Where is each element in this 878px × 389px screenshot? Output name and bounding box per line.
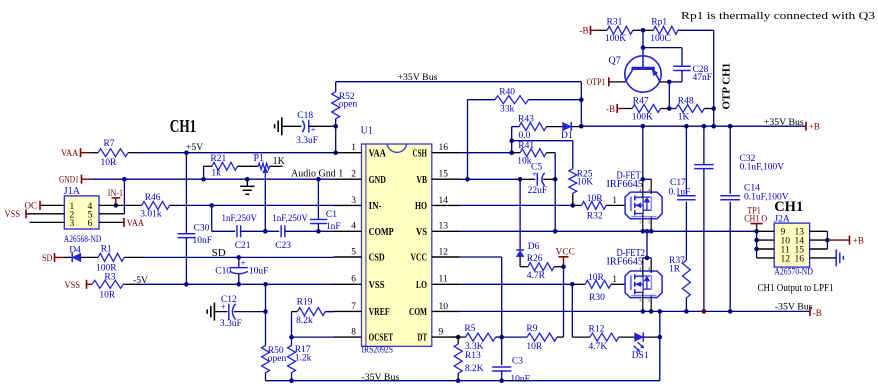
svg-text:100K: 100K [605,34,626,44]
port OC [25,201,65,212]
junction OCSET/R17 [289,335,294,340]
wire COM/-35V bus (pin10) [460,310,810,312]
svg-text:1R: 1R [669,265,681,275]
pin 2 stub (U1 GND) [334,178,362,180]
transistor Q7 (PNP) [609,56,662,93]
pin 1 J1A [70,202,75,212]
op-amp/IC U1 IRS2092S body [362,144,432,346]
svg-text:CH1: CH1 [774,199,803,215]
svg-text:D6: D6 [528,242,540,252]
power symbol VCC [556,247,576,266]
junction VS/FET mid [645,229,650,234]
pin 10 stub (U1 COM) [432,310,460,312]
junction C12/R50 [263,309,268,314]
junction bus/DS1 vertical [658,309,663,314]
wire CSH row (pin16) [460,152,512,154]
junction C5 right/VB row [553,177,558,182]
svg-text:R43: R43 [518,115,534,125]
resistor Rp1 100C [643,17,714,44]
junction bus/R13 [456,378,461,383]
pin 3 stub (U1 IN-) [334,204,362,206]
svg-text:GND: GND [369,174,386,186]
wire emitter node down to R47/R48 [668,82,670,109]
svg-text:R32: R32 [587,211,603,221]
wire VAA row to IC pin1 [136,152,336,154]
capacitor C3 10nF [492,337,530,384]
svg-text:IRS2092S: IRS2092S [362,346,394,356]
resistor R31 100K [599,17,643,44]
pin number 11 [439,275,448,285]
svg-text:10R: 10R [587,194,604,204]
svg-text:R47: R47 [633,96,649,106]
wire VS output row (pin13) [460,230,757,232]
svg-text:J2A: J2A [774,214,789,224]
pin 11 J2A [781,245,790,255]
junction C5 branch/VS row [553,229,558,234]
junction FET1 drain bracket [641,177,646,182]
pin number 16 [439,143,449,153]
svg-text:-B: -B [606,105,615,115]
resistor R47 100K [624,96,669,122]
svg-text:1k: 1k [211,169,221,179]
resistor R50 open [262,284,287,380]
junction SD/C10 [237,255,242,260]
svg-text:GND1: GND1 [59,175,79,185]
pin number 10 [439,302,449,312]
svg-text:VS: VS [416,226,427,238]
pin 1 stub (U1 VAA) [334,152,362,154]
svg-text:IN-1: IN-1 [108,188,123,198]
svg-text:COMP: COMP [369,226,394,238]
pin name CSH [413,147,428,159]
junction -5V/R50 [263,282,268,287]
svg-text:CSD: CSD [369,252,385,264]
svg-text:5: 5 [351,247,356,257]
junction bus/D1-vertical [579,124,584,129]
junction R47/R48 [667,106,672,111]
svg-text:R26: R26 [527,254,543,264]
wire J2A pin14 link [810,239,828,241]
resistor R19 8.2k [292,298,334,326]
junction gnd/J1A-5 [122,177,127,182]
svg-text:14: 14 [439,196,449,206]
junction R5/VCC-vert/R9 [499,335,504,340]
svg-text:OCSET: OCSET [369,332,394,344]
resistor R1 100R [96,245,144,274]
svg-text:R48: R48 [678,96,694,106]
label D-FET2 [617,248,646,259]
junction HO/R25/R32 [571,203,576,208]
pin 10 J2A [781,237,791,247]
svg-text:VSS: VSS [369,279,385,291]
pin name LO [416,279,427,291]
svg-text:VCC: VCC [556,247,576,257]
svg-text:-B: -B [813,309,822,319]
svg-text:4: 4 [351,222,356,232]
wire Audio Gnd row to IC pin2 [92,178,334,180]
capacitor C5 22uF [520,163,555,196]
svg-text:P1: P1 [254,153,265,164]
junction DS1/-35V vertical [658,335,663,340]
capacitor C23 1nF 250V [272,213,308,251]
wire J2A right vertical [826,231,828,249]
pin 11 stub (U1 LO) [432,283,460,285]
capacitor C14 0.1uF 100V [720,126,740,311]
pin 4 J1A [88,202,93,212]
wire P1 wiper down to COMP row [264,179,266,231]
resistor R17 1.2k [288,337,312,381]
svg-text:C12: C12 [221,295,237,305]
svg-text:open: open [268,354,287,364]
pin number 2 [351,170,356,180]
pin 12 stub (U1 VCC) [432,256,460,258]
resistor R43 0.0 [512,115,563,141]
resistor R7 10R [90,139,136,168]
wire J1A pin5 to gnd row [99,179,124,214]
junction FET2 drain bracket [645,256,650,261]
svg-text:8.2k: 8.2k [296,316,313,326]
resistor R52 [332,82,358,127]
resistor R46 3.01k [116,193,178,220]
svg-text:LO: LO [416,279,427,291]
wire R43 left vertical [511,127,513,153]
junction bus/R37 [684,309,689,314]
junction VB/D6/C5 [518,177,523,182]
svg-text:-B: -B [580,27,589,37]
capacitor C17 0.1uF [669,126,696,200]
pin name COM [409,306,427,318]
pin 12 J2A [781,254,791,264]
svg-text:R31: R31 [607,17,623,27]
wire J2A pin16 stub [810,257,837,259]
pin 9 J2A [781,228,786,238]
svg-text:C30: C30 [194,224,210,234]
resistor R26 4.7R [520,254,563,281]
pin name COMP [369,226,394,238]
port -B (R47) [606,104,624,115]
svg-text:A26568-ND: A26568-ND [64,235,102,245]
svg-text:+: + [241,259,246,268]
pin number 8 [351,328,356,338]
junction COMP/P1 wiper [263,229,268,234]
svg-text:10uF: 10uF [249,266,269,276]
junction +5V node [184,150,189,155]
junction collector/C28 top [641,45,646,50]
svg-text:VREF: VREF [369,306,390,318]
ground (signal) at C18 [275,117,282,135]
port VAA (top) [61,148,90,159]
svg-text:10: 10 [439,302,449,312]
port OTP1 [587,77,626,88]
ground (signal) at J2A pin16 [836,249,843,266]
svg-text:10R: 10R [101,158,118,168]
junction R26/VCC/R9 [561,264,566,269]
diode D1 [561,122,581,141]
junction bus/FET1 drain [641,124,646,129]
pin 8 stub (U1 OCSET) [334,336,362,338]
svg-text:D1: D1 [561,131,573,141]
junction R40/D1 vertical [579,97,584,102]
svg-text:Q7: Q7 [609,56,621,67]
pin 7 stub (U1 VREF) [334,310,362,312]
svg-text:VSS: VSS [65,281,81,291]
pin 9 stub (U1 DT) [432,336,460,338]
pin 15 J2A [795,245,805,255]
title CH1 (left channel heading) [170,116,197,136]
pin name DT [418,332,428,344]
capacitor C18 3.3uF [296,111,336,146]
wire R40 rail (x467) [467,100,469,180]
junction bus/right rail [711,124,716,129]
wire C21 branch vertical [211,205,213,231]
svg-text:CH1: CH1 [170,116,197,136]
junction bus/FET2 source a [641,309,646,314]
svg-text:U1: U1 [361,126,373,137]
pin name IN- [369,200,382,212]
label IRS2092S [362,346,394,356]
pin 16 J2A [795,254,805,264]
svg-text:VB: VB [417,174,428,186]
net label Audio Gnd 1 [291,169,343,180]
svg-text:100K: 100K [632,113,653,123]
port +B (J2A) [827,236,863,247]
pin name VSS [369,279,385,291]
svg-text:VAA: VAA [61,149,78,159]
resistor R13 8.2K [454,337,484,381]
label U1 [361,126,373,137]
svg-text:R30: R30 [589,293,605,303]
svg-text:C10: C10 [215,266,231,276]
wire LO row (pin11) [460,283,573,285]
LED DS1 [632,332,660,361]
pin 4 stub (U1 COMP) [334,230,362,232]
pin 16 stub (U1 CSH) [432,152,460,154]
junction VSS/C10 [237,282,242,287]
pin name VS [416,226,427,238]
svg-text:C17: C17 [670,178,686,188]
resistor R48 1K [669,96,713,122]
svg-text:0.1uF: 0.1uF [669,188,691,198]
svg-text:0.1uF,100V: 0.1uF,100V [740,162,785,172]
junction R31/Rp1/collector [641,28,646,33]
junction gnd/R21 [201,177,206,182]
wire COMP row left [212,230,235,232]
svg-text:C23: C23 [275,241,291,251]
capacitor C28 47nF [669,65,712,83]
label C14 [744,183,789,202]
pin name GND [369,174,386,186]
svg-text:13: 13 [439,222,449,232]
resistor R37 1R [669,202,690,312]
svg-text:R41: R41 [518,141,534,151]
label A26568-ND [64,235,102,245]
junction gnd/earth [245,177,250,182]
wire VB row (pin15) [460,178,520,180]
junction bus/C14 [728,309,733,314]
pin number 13 [439,222,449,232]
svg-text:11: 11 [439,275,448,285]
svg-text:COM: COM [409,306,427,318]
wire J2A pin10 stub [757,239,775,241]
title CH1 (right) [774,199,803,215]
svg-text:HO: HO [415,200,427,212]
wire J2A pin11 stub [757,248,775,250]
wire D6 vertical from VB [519,179,521,250]
wire +35V bus left horizontal [336,81,582,83]
junction IN-/C21 branch [209,203,214,208]
svg-text:6: 6 [88,219,93,229]
svg-text:10K: 10K [577,177,594,187]
wire J2A pin9 stub [757,230,775,232]
net label +35V Bus (left) [398,72,438,83]
label A26570-ND [774,267,813,277]
svg-text:R40: R40 [499,88,515,98]
svg-text:10R: 10R [588,273,605,283]
svg-text:A26570-ND: A26570-ND [774,267,813,277]
wire C18 left lead [282,125,301,127]
junction R43-vert/CSH row [509,150,514,155]
svg-text:3.01k: 3.01k [140,209,162,219]
pin 2 J1A [70,210,75,220]
wire J2A pin13 link [810,230,828,232]
diode D6 [516,242,539,267]
pin number 1 [351,143,356,153]
port -B (R31) [580,26,600,37]
pin 13 stub (U1 VS) [432,230,460,232]
svg-text:C21: C21 [235,241,251,251]
junction +B node [825,238,830,243]
svg-text:0.0: 0.0 [519,131,531,141]
wire right rail down to +35V bus [713,109,715,127]
junction R48/right rail [711,106,716,111]
svg-text:CSH: CSH [413,147,428,159]
pin name VAA [369,147,386,159]
junction emitter/C28 bottom [667,80,672,85]
svg-text:3: 3 [70,219,75,229]
svg-text:9: 9 [439,328,444,338]
pin name OCSET [369,332,394,344]
pin number 4 [351,222,356,232]
pin number 15 [439,170,449,180]
transistor D-FET2 (IRF6645) [625,258,662,311]
svg-text:1K: 1K [678,113,690,123]
wire +35V bus left corner down to right bus [580,82,582,127]
pin number 1 (FET2 gate) [612,275,617,285]
ground (earth) below R21 [240,179,254,194]
resistor R32 10R [573,194,626,221]
svg-text:VAA: VAA [369,147,386,159]
junction C30/-5V row [184,282,189,287]
junction bus/FET2 source b [649,309,654,314]
svg-text:R12: R12 [589,325,605,335]
svg-text:22uF: 22uF [528,186,548,196]
svg-text:10nF: 10nF [510,374,530,384]
wire Q7 emitter to node [660,81,670,83]
pin name VCC [411,252,428,264]
svg-text:47nF: 47nF [693,73,713,83]
svg-text:12: 12 [439,247,449,257]
capacitor C10 10uF [215,257,268,284]
svg-text:10R: 10R [99,290,116,300]
capacitor C30 10nF [178,153,213,285]
wire +35V bus right [581,125,806,127]
resistor R12 4.7K [572,325,634,352]
svg-text:Rp1: Rp1 [651,17,667,27]
resistor R40 33k [468,88,582,115]
pin 14 J2A [795,237,805,247]
pin 6 J1A [88,219,93,229]
wire C21-C23 [241,230,280,232]
svg-text:1: 1 [612,275,617,285]
wire C28 top link [643,48,682,67]
connector J1A body [64,186,99,229]
svg-text:3.3uF: 3.3uF [296,136,318,146]
pin 6 stub (U1 VSS) [334,283,362,285]
wire VCC pin12 to C3 branch [460,257,502,337]
junction C18/R52 [333,124,338,129]
svg-text:10k: 10k [517,157,532,167]
svg-text:DS1: DS1 [632,351,649,361]
junction LO/R30/R12 [570,282,575,287]
net label +35V Bus (right) [764,117,804,128]
svg-text:+: + [311,126,316,135]
svg-text:J1A: J1A [64,186,81,197]
svg-text:open: open [339,100,358,110]
ground (signal) at C12 [207,303,214,321]
wire DT to R9 [502,336,527,338]
wire OCSET row (pin8) [292,336,334,338]
pin number 7 [351,302,356,312]
wire FET1 drain feed [643,126,651,179]
svg-text:R7: R7 [104,139,115,149]
pin number 14 [439,196,449,206]
wire R25 top link [512,140,573,142]
net label -5V [133,275,148,286]
svg-text:1K: 1K [273,156,286,167]
net label -35V Bus (bottom) [362,372,400,383]
svg-text:C3: C3 [512,356,523,366]
svg-text:+5V: +5V [186,142,203,153]
svg-text:3.3uF: 3.3uF [220,319,242,329]
pin 15 stub (U1 VB) [432,178,460,180]
capacitor C12 3.3uF [214,295,265,329]
svg-text:1nF,250V: 1nF,250V [272,213,308,223]
junction bus/C32 [702,124,707,129]
svg-text:VCC: VCC [411,252,428,264]
wire J2A left vertical [756,231,758,258]
pin name VB [417,174,428,186]
resistor R3 10R [92,273,133,301]
svg-text:C1: C1 [326,210,337,220]
svg-text:10nF: 10nF [193,236,213,246]
svg-text:R13: R13 [465,351,481,361]
svg-text:7: 7 [351,302,356,312]
svg-text:CH1 O: CH1 O [744,214,767,224]
wire -35V bottom bus [266,380,660,382]
potentiometer P1 1K [254,153,286,179]
svg-text:12: 12 [781,254,791,264]
pin name CSD [369,252,385,264]
pin 3 J1A [70,219,75,229]
label IRF6645 (FET2) [607,256,644,267]
svg-text:SD: SD [42,254,53,264]
svg-text:1.2k: 1.2k [295,353,312,363]
junction gnd/C1 [316,177,321,182]
junction bus/C17 [684,124,689,129]
port +B (bus) [806,122,820,133]
junction DT/R13 [456,335,461,340]
pin 14 stub (U1 HO) [432,204,460,206]
